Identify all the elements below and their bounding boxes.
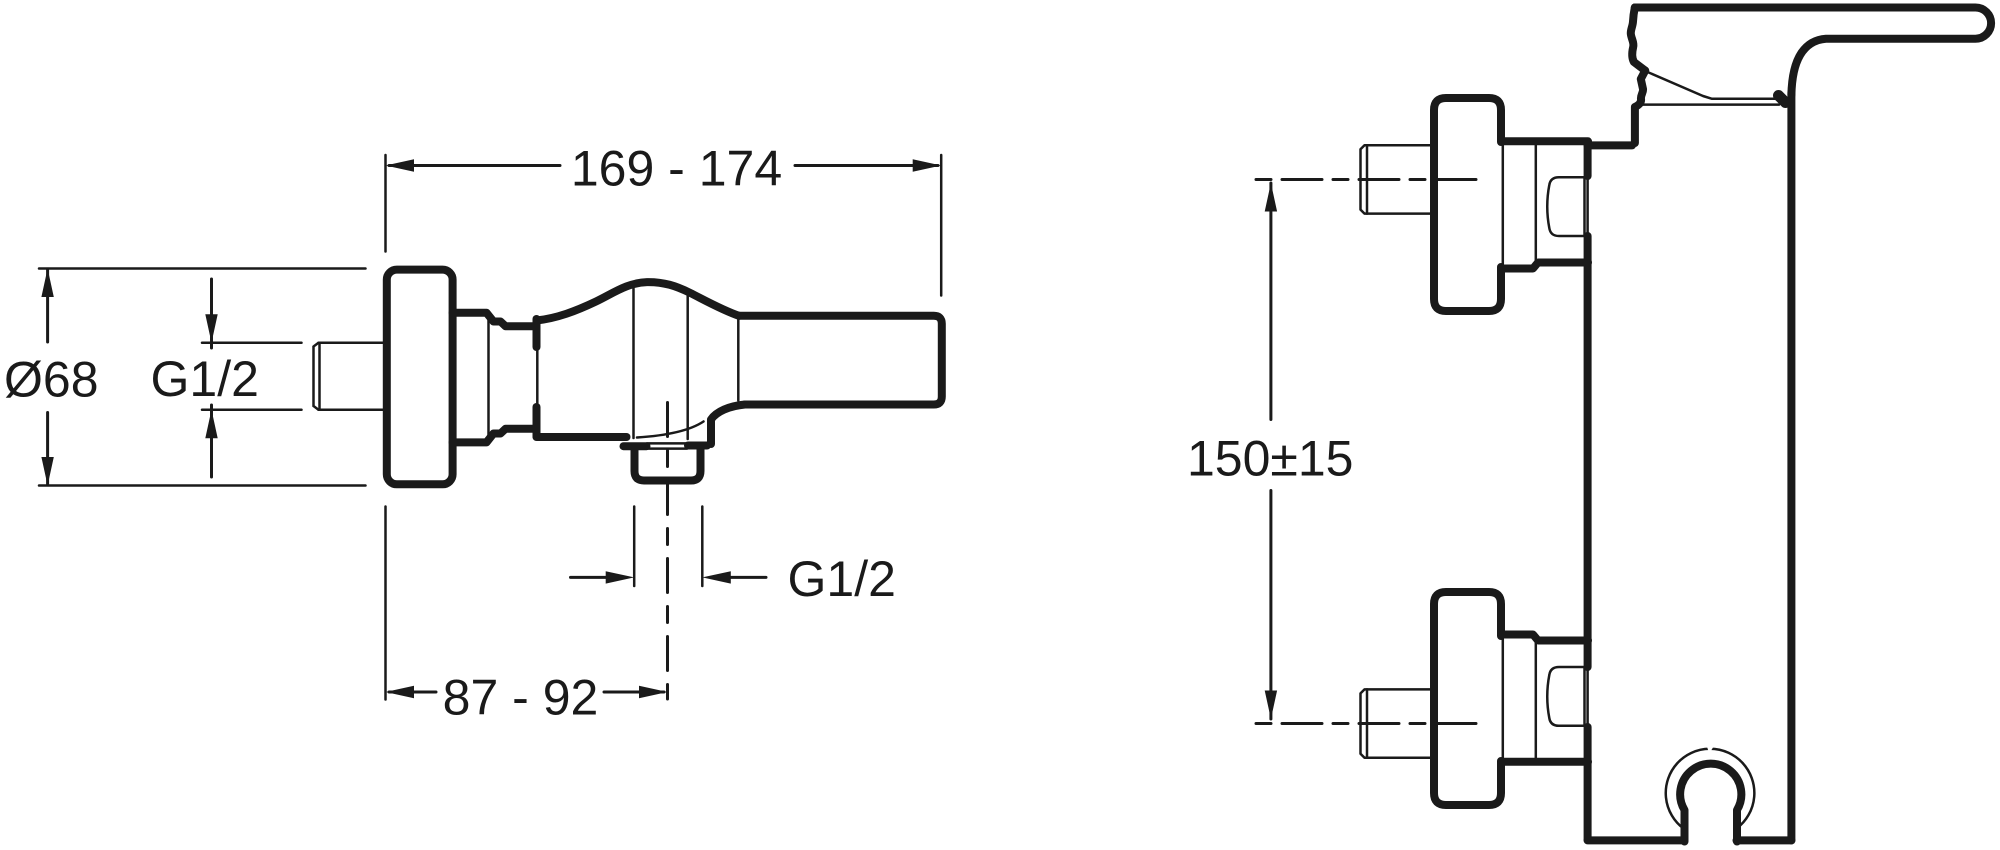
- body top shoulder: [1588, 141, 1632, 149]
- handshower hook inner hook: [1680, 764, 1741, 842]
- handshower hook outer ring: [1666, 749, 1755, 829]
- svg-text:150±15: 150±15: [1187, 431, 1353, 487]
- spout tube outline (top, right, bottom): [739, 316, 942, 405]
- connector dash-dot centerline: [1256, 178, 1478, 181]
- svg-text:G1/2: G1/2: [151, 351, 259, 407]
- dim 169-174 arrowheads: [386, 159, 942, 171]
- body left edge (side view): [1584, 145, 1592, 840]
- body bottom edge (side view): [1588, 836, 1792, 844]
- svg-text:169 - 174: 169 - 174: [571, 141, 782, 197]
- collar seam thin vertical: [487, 314, 490, 441]
- tail pipe (thin rect): [1361, 145, 1435, 213]
- top connector group: [1256, 98, 1588, 311]
- body bottom edge: [537, 433, 627, 441]
- outlet right tab: [688, 442, 707, 450]
- dim 150±15 dimension line: [1269, 183, 1272, 719]
- tail pipe end seam: [1366, 145, 1369, 213]
- body left edge vertical (thin middle): [536, 347, 539, 407]
- hook notch: [1707, 745, 1715, 753]
- union nut top edge: [1503, 137, 1588, 145]
- cap top seam: [1639, 103, 1779, 106]
- dim 169-174 dimension line: [389, 164, 938, 167]
- outlet thread thin double lines: [647, 443, 687, 448]
- body underside curve into outlet boss (right side): [711, 405, 745, 445]
- cartridge cover seam thin vertical A: [632, 289, 635, 439]
- junction blob: [1779, 96, 1786, 103]
- escutcheon flange (side view): [1434, 98, 1501, 311]
- dim G1/2 bottom arrowheads: [606, 571, 731, 583]
- dim 169-174 extension line left: [384, 155, 387, 252]
- union nut flat (D shape): [1547, 177, 1584, 236]
- wall flange / escutcheon (front view): [387, 270, 453, 485]
- collar steps bottom profile: [453, 429, 537, 443]
- dim 87-92 arrowheads: [386, 686, 668, 698]
- dim Ø68 arrowheads: [41, 269, 53, 486]
- svg-text:G1/2: G1/2: [788, 551, 896, 607]
- lever/cap diagonal seam: [1645, 71, 1779, 99]
- G1/2 inlet thread (front view): [314, 343, 388, 410]
- cap front edge: [1635, 71, 1645, 143]
- svg-text:87 - 92: 87 - 92: [443, 670, 599, 726]
- dim G1/2 left extension lines: [202, 343, 302, 410]
- dim 87-92 extension line: [384, 507, 387, 700]
- dim G1/2 left leader lines: [210, 279, 213, 477]
- cartridge dome outline: [537, 282, 740, 320]
- dim G1/2 bottom leader lines: [571, 576, 767, 579]
- outlet union nut: [635, 449, 701, 481]
- cartridge cover seam thin vertical B: [686, 290, 689, 440]
- union nut bottom edge with step: [1503, 263, 1588, 269]
- outlet fillet thin arc: [637, 422, 704, 438]
- svg-text:Ø68: Ø68: [4, 352, 99, 408]
- outlet dashed centerline: [666, 403, 669, 700]
- collar steps between flange and body, top profile: [453, 313, 537, 327]
- spout left seam thin vertical: [737, 317, 740, 401]
- union nut seam thin: [1535, 143, 1538, 266]
- dim Ø68 dimension line: [46, 269, 49, 485]
- dim G1/2 bottom extension lines: [634, 507, 702, 587]
- dim 150±15 arrowheads: [1265, 183, 1277, 719]
- lever tip front edge: [1631, 8, 1645, 71]
- dim 169-174 extension line right: [940, 155, 943, 296]
- outlet left tab: [624, 442, 647, 450]
- lever outline: [1635, 8, 1991, 96]
- body left edge vertical (thick ends): [533, 319, 541, 347]
- dim G1/2 left arrowheads: [205, 314, 217, 438]
- dim Ø68 extension lines: [39, 269, 366, 486]
- flange hidden edge thin: [1502, 142, 1505, 267]
- dim 87-92 dimension line: [389, 691, 664, 694]
- body right edge (side view): [1787, 92, 1795, 840]
- bottom connector (mirror of top): [1256, 592, 1588, 805]
